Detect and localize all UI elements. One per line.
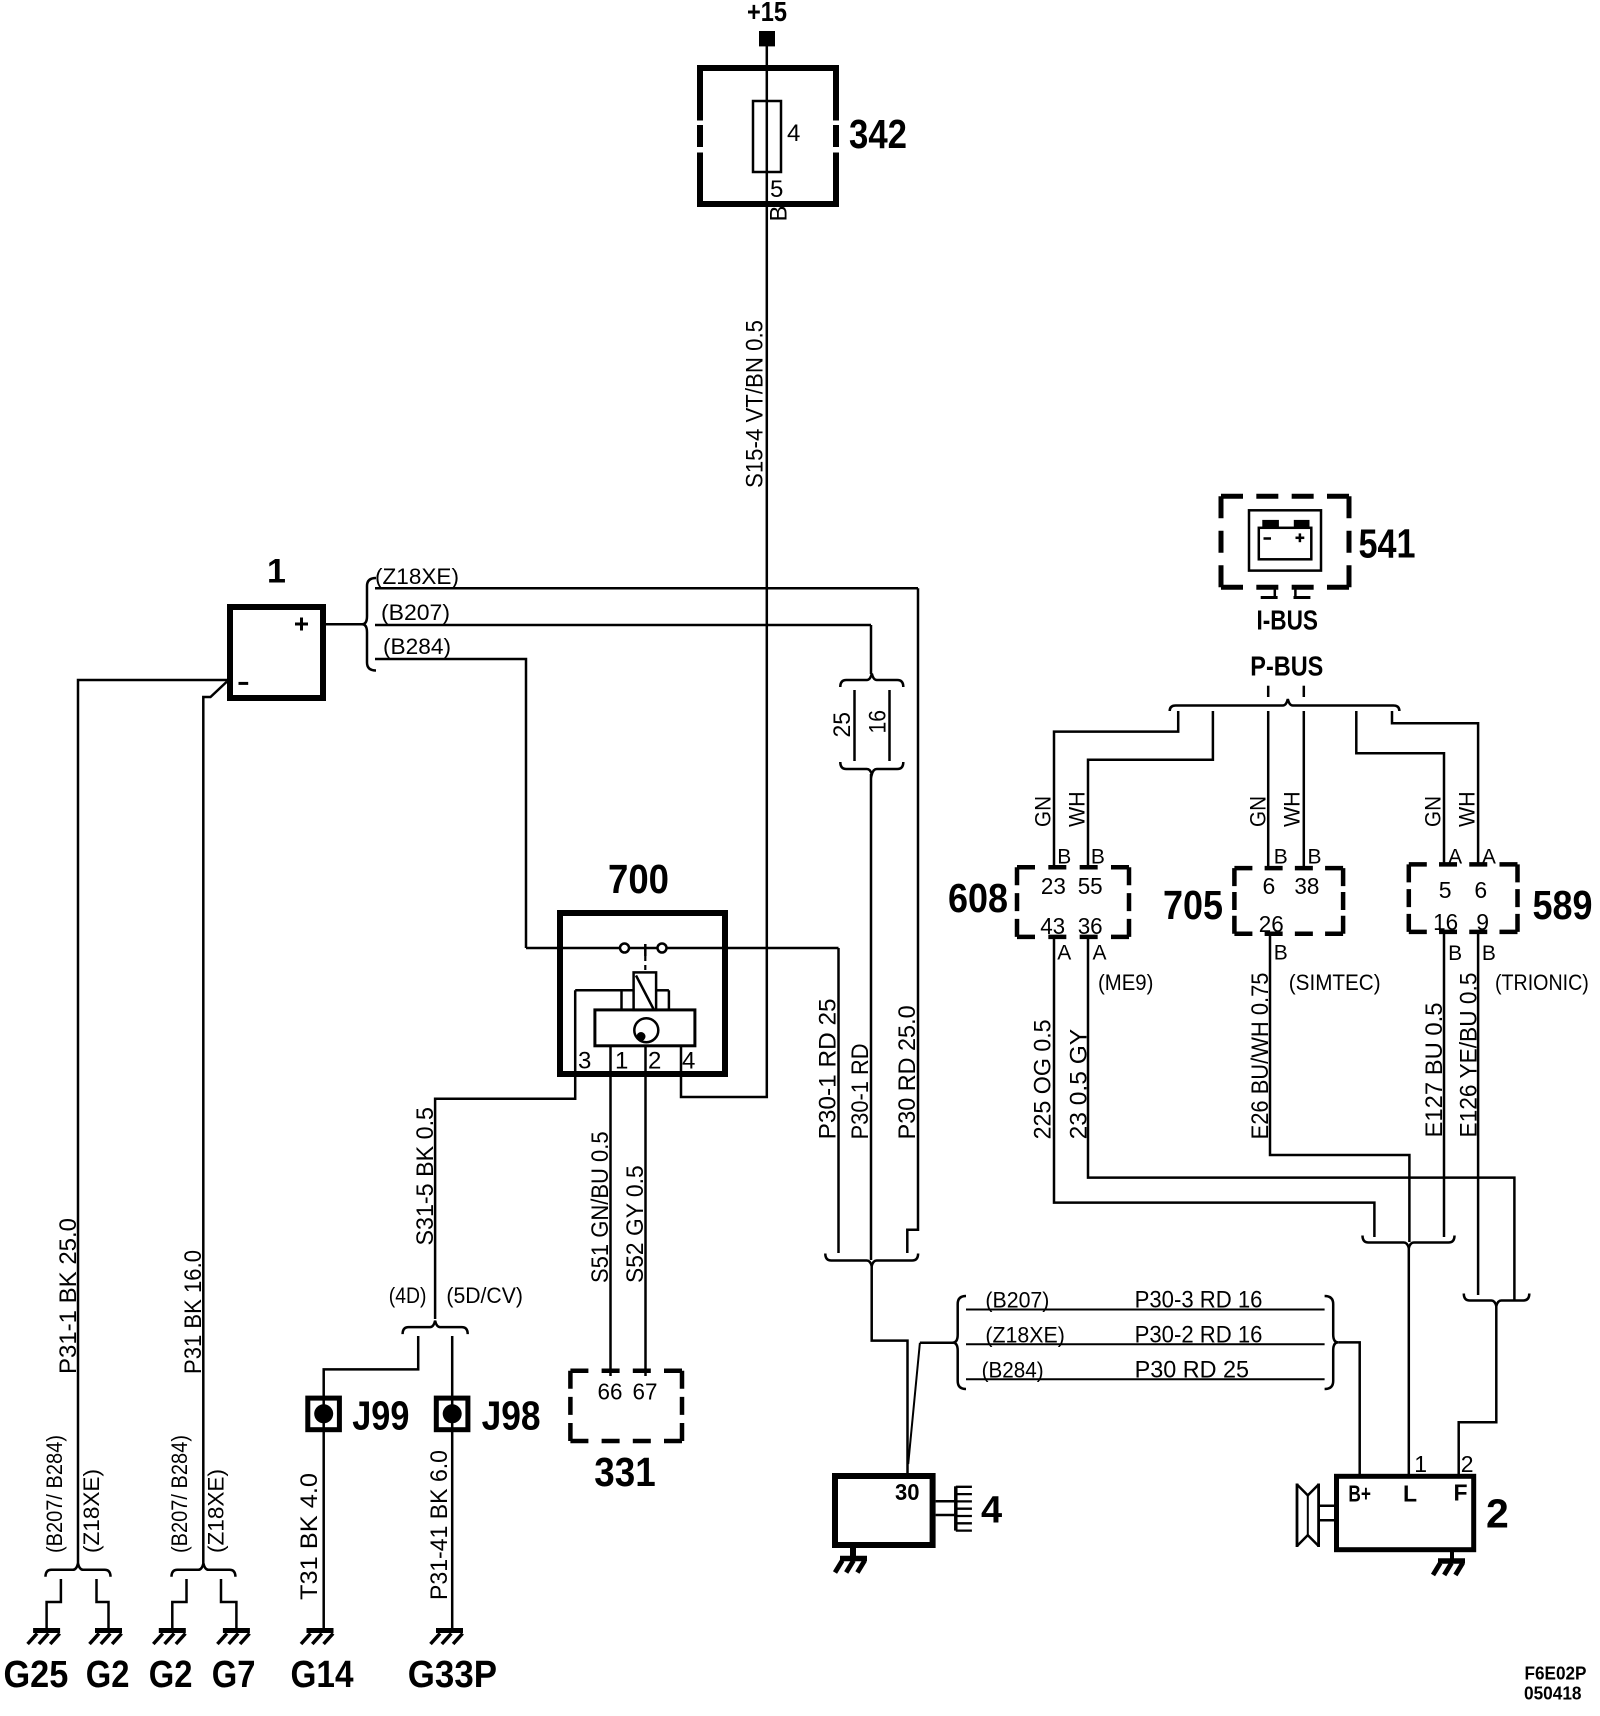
wire branch to ground G7 (221, 1579, 236, 1630)
relay thermal circle symbol (634, 1018, 658, 1042)
svg-text:P30-2 RD 16: P30-2 RD 16 (1135, 1321, 1263, 1348)
wire 705 pin 26 to L merge brace (1270, 934, 1409, 1242)
svg-text:G33P: G33P (408, 1654, 497, 1696)
svg-text:66: 66 (598, 1379, 623, 1405)
svg-text:9: 9 (1476, 909, 1489, 935)
bus wire to 705 pin 38 (1303, 711, 1306, 866)
svg-text:P30-3 RD 16: P30-3 RD 16 (1135, 1287, 1263, 1314)
pin 23 label (1041, 873, 1066, 899)
svg-text:705: 705 (1163, 882, 1223, 928)
svg-text:E26 BU/WH 0.75: E26 BU/WH 0.75 (1247, 973, 1274, 1140)
wire 608 pin 43 to L merge brace (1054, 937, 1374, 1237)
svg-text:(5D/CV): (5D/CV) (446, 1283, 523, 1308)
svg-text:050418: 050418 (1524, 1683, 1582, 1704)
wire label S31-5 BK 0.5 (412, 1107, 439, 1246)
svg-text:(B284): (B284) (383, 634, 451, 659)
svg-text:23: 23 (1041, 873, 1066, 899)
wire (Z18XE) horizontal from brace to right side (375, 587, 918, 590)
component label 1 (battery) (267, 553, 286, 591)
svg-text:(4D): (4D) (389, 1283, 427, 1308)
ground label G25 (4, 1654, 69, 1696)
wire label WH (589) (1455, 791, 1480, 827)
wire P30-1 RD 25 (from relay contact down) (837, 948, 840, 1253)
svg-text:B: B (1057, 845, 1071, 868)
component label 2 (generator) (1486, 1490, 1509, 1536)
svg-text:P30-1 RD 25: P30-1 RD 25 (815, 998, 842, 1139)
svg-text:4: 4 (787, 120, 800, 147)
generator chassis ground symbol (1433, 1561, 1465, 1575)
pin 67 label (633, 1379, 658, 1405)
541 bus stub left (1261, 587, 1278, 597)
svg-text:589: 589 (1533, 882, 1593, 928)
svg-text:1: 1 (615, 1048, 628, 1075)
wire label P31-41 BK 6.0 (426, 1450, 453, 1600)
pin 55 label (1078, 873, 1103, 899)
svg-text:GN: GN (1031, 796, 1056, 827)
wire label E127 BU 0.5 (1421, 1003, 1448, 1138)
merge brace for generator F wire (1464, 1294, 1530, 1307)
svg-text:(B284): (B284) (982, 1357, 1044, 1382)
relay box 700 (560, 913, 725, 1074)
ground symbol G2 (first) (90, 1631, 123, 1645)
wire (B284) horizontal then down to relay contact (375, 659, 526, 948)
relay pin 4 label (682, 1048, 695, 1075)
svg-text:T31 BK 4.0: T31 BK 4.0 (296, 1473, 323, 1600)
pin 5 label of fuse (770, 176, 783, 203)
label (B207) list (985, 1288, 1049, 1313)
label (4D) (389, 1283, 427, 1308)
svg-text:(B207): (B207) (985, 1288, 1049, 1313)
svg-text:I-BUS: I-BUS (1257, 604, 1319, 635)
svg-text:S31-5 BK 0.5: S31-5 BK 0.5 (412, 1107, 439, 1246)
svg-text:6: 6 (1474, 877, 1487, 903)
bus wire to 589 pin 6 (1392, 711, 1478, 864)
wire label GN (589) (1421, 796, 1446, 827)
wire label 23 0.5 GY (1065, 1029, 1092, 1140)
svg-text:5: 5 (1439, 877, 1452, 903)
P-BUS distribution brace (1170, 699, 1400, 711)
connector box 331 (dashed) (570, 1371, 682, 1441)
svg-text:WH: WH (1280, 791, 1305, 827)
pin 38 label (1294, 873, 1319, 899)
component label 705 (1163, 882, 1223, 928)
svg-text:36: 36 (1078, 913, 1103, 939)
pin 5 label (589) (1439, 877, 1452, 903)
starter chassis ground symbol (835, 1559, 867, 1573)
gauge bracket upper brace (840, 674, 903, 688)
relay contact armature tick (644, 944, 647, 956)
label (ME9) (1098, 970, 1153, 995)
label P30-2 RD 16 (1135, 1321, 1263, 1348)
bus wire to 705 pin 6 (1267, 711, 1270, 866)
pin 66 label (598, 1379, 623, 1405)
svg-text:B: B (766, 205, 793, 221)
wire label P31 BK 16.0 (180, 1250, 207, 1374)
battery 1 plus sign (295, 618, 308, 631)
svg-text:4: 4 (981, 1490, 1002, 1532)
pin 6 label (589) (1474, 877, 1487, 903)
svg-text:P30 RD 25: P30 RD 25 (1135, 1356, 1249, 1383)
svg-text:P31-1 BK 25.0: P31-1 BK 25.0 (55, 1218, 82, 1374)
wire through fuse 342 (766, 68, 769, 948)
svg-text:P30 RD 25.0: P30 RD 25.0 (894, 1005, 921, 1139)
svg-text:1: 1 (1414, 1451, 1427, 1477)
bus wire to 608 pin 23 (1054, 711, 1178, 866)
relay pin 1 label (615, 1048, 628, 1075)
svg-text:608: 608 (948, 875, 1008, 921)
relay armature dashed link (644, 956, 646, 972)
relay pin 2 label (648, 1048, 661, 1075)
relay pin 3 label (578, 1048, 591, 1075)
svg-text:S51 GN/BU 0.5: S51 GN/BU 0.5 (587, 1131, 614, 1283)
svg-text:26: 26 (1259, 911, 1284, 937)
wire P30-1 RD below gauge bracket (870, 774, 873, 1260)
svg-text:700: 700 (608, 856, 669, 902)
wire battery plus to variant brace (323, 623, 363, 626)
svg-text:G7: G7 (212, 1654, 256, 1696)
svg-text:G2: G2 (86, 1654, 130, 1696)
label (TRIONIC) (1495, 970, 1589, 995)
wire label E126 YE/BU 0.5 (1455, 973, 1482, 1138)
ground label G2 (second) (149, 1654, 193, 1696)
svg-text:P-BUS: P-BUS (1250, 650, 1323, 681)
relay coil yoke lines (575, 990, 669, 1010)
svg-text:WH: WH (1065, 791, 1090, 827)
svg-text:GN: GN (1246, 796, 1271, 827)
svg-text:B: B (1274, 942, 1288, 965)
connector box 608 (dashed) (1017, 867, 1129, 937)
wire label GN (705) (1246, 796, 1271, 827)
svg-text:G2: G2 (149, 1654, 193, 1696)
svg-text:331: 331 (594, 1449, 655, 1495)
wire branch (4D) to junction J99 (324, 1336, 419, 1630)
wire label S51 GN/BU 0.5 (587, 1131, 614, 1283)
svg-text:GN: GN (1421, 796, 1446, 827)
wire merged to generator L (1408, 1247, 1411, 1476)
svg-text:B: B (1482, 942, 1496, 965)
node +15 supply label (747, 0, 787, 27)
svg-text:(B207/ B284): (B207/ B284) (167, 1435, 192, 1553)
svg-text:4: 4 (682, 1048, 695, 1075)
junction label J99 (352, 1392, 409, 1438)
wire label P30-1 RD 25 (815, 998, 842, 1139)
svg-text:F: F (1454, 1480, 1468, 1506)
wire label WH (608) (1065, 791, 1090, 827)
junction J98 box with dot (436, 1398, 468, 1430)
svg-text:P31-41 BK 6.0: P31-41 BK 6.0 (426, 1450, 453, 1600)
battery icon in 541 (1259, 520, 1312, 559)
wire label P31-1 BK 25.0 (55, 1218, 82, 1374)
svg-text:B: B (1448, 942, 1462, 965)
svg-text:B: B (1274, 845, 1288, 868)
svg-text:1: 1 (267, 553, 286, 591)
pin letter B below 705 pin 26 (1274, 942, 1288, 965)
label (B284) engine variant (383, 634, 451, 659)
label (SIMTEC) (1289, 970, 1381, 995)
pin letter B above 705 pin 6 (1274, 845, 1288, 868)
svg-text:2: 2 (1461, 1451, 1474, 1477)
pin 30 label (895, 1479, 920, 1505)
label (Z18XE) list (985, 1322, 1065, 1347)
pin 4 label of fuse (787, 120, 800, 147)
svg-text:(ME9): (ME9) (1098, 970, 1153, 995)
module 541 dashed box (1221, 496, 1349, 587)
wire label T31 BK 4.0 (296, 1473, 323, 1600)
generator pin 2 label (1461, 1451, 1474, 1477)
component label 700 (608, 856, 669, 902)
svg-text:S15-4 VT/BN 0.5: S15-4 VT/BN 0.5 (742, 320, 769, 488)
wire label S15-4 VT/BN 0.5 (742, 320, 769, 488)
bus wire to 608 pin 55 (1088, 711, 1213, 866)
module 541 inner box (1249, 510, 1321, 570)
svg-text:16: 16 (1433, 909, 1458, 935)
label (B207/ B284) variant for ground G2 second (167, 1435, 192, 1553)
wire stub to P30 list brace with diagonal (908, 1343, 953, 1464)
junction J99 box with dot (308, 1398, 340, 1430)
pin letter A below 608 pin 36 (1093, 942, 1107, 965)
gauge bracket line 25 (853, 690, 856, 761)
gauge bracket line 16 (888, 690, 891, 761)
pin letter B above 608 pin 55 (1091, 845, 1105, 868)
generator pulley symbol (1297, 1484, 1319, 1548)
wire (Z18XE) down right side (907, 588, 918, 1253)
wire merged to generator F (1459, 1305, 1497, 1476)
ground label G2 (first) (86, 1654, 130, 1696)
svg-text:38: 38 (1294, 873, 1319, 899)
pin 16 label (1433, 909, 1458, 935)
ground label G14 (291, 1654, 354, 1696)
label P30-3 RD 16 (1135, 1287, 1263, 1314)
diagram code F6E02P (1525, 1663, 1587, 1684)
svg-text:(B207): (B207) (381, 600, 450, 625)
wire battery minus to left grounds (78, 680, 228, 1563)
ground symbol G2 (second) (153, 1631, 186, 1645)
wire merged P30 down to starter (872, 1265, 908, 1476)
generator pin B+ label (1348, 1481, 1371, 1507)
svg-text:J99: J99 (352, 1392, 409, 1438)
svg-text:(B207/ B284): (B207/ B284) (42, 1435, 67, 1553)
label (B207) engine variant (381, 600, 450, 625)
svg-text:5: 5 (770, 176, 783, 203)
label (B284) list (982, 1357, 1044, 1382)
wire branch to ground G2 (second) (172, 1579, 186, 1630)
svg-text:2: 2 (1486, 1490, 1509, 1536)
pin B label (rotated) below fuse box (766, 205, 793, 221)
gauge label 16 (865, 710, 892, 734)
wire relay pin 2 down to 331 (644, 1046, 647, 1376)
pin 26 label (1259, 911, 1284, 937)
ground label G33P (408, 1654, 497, 1696)
generator ground stub (1450, 1550, 1454, 1561)
svg-text:3: 3 (578, 1048, 591, 1075)
list line 3 (B284) P30 RD 25 (966, 1378, 1325, 1380)
component label 331 (594, 1449, 655, 1495)
svg-text:E126 YE/BU 0.5: E126 YE/BU 0.5 (1455, 973, 1482, 1138)
ground symbol G33P (431, 1631, 464, 1645)
svg-text:E127 BU 0.5: E127 BU 0.5 (1421, 1003, 1448, 1138)
svg-text:P30-1 RD: P30-1 RD (847, 1043, 874, 1139)
pin 6 label (705) (1263, 873, 1276, 899)
wire label E26 BU/WH 0.75 (1247, 973, 1274, 1140)
fuse box 342 outline (dashed component box) (697, 65, 839, 207)
generator pin F label (1454, 1480, 1468, 1506)
svg-text:S52 GY 0.5: S52 GY 0.5 (622, 1165, 649, 1283)
component label 342 (849, 111, 907, 157)
svg-text:23 0.5 GY: 23 0.5 GY (1065, 1029, 1092, 1140)
wire from list brace to generator B+ (1338, 1342, 1360, 1476)
generator belt link lines (1320, 1506, 1337, 1520)
generator box 2 (1337, 1476, 1474, 1549)
svg-text:G25: G25 (4, 1654, 69, 1696)
svg-text:30: 30 (895, 1479, 920, 1505)
svg-text:25: 25 (829, 712, 856, 738)
pin 9 label (1476, 909, 1489, 935)
wire branch to ground G2 (first) (97, 1579, 109, 1630)
relay coil symbol (634, 972, 657, 1010)
pin letter A above 589 pin 6 (1482, 845, 1496, 868)
svg-text:B: B (1091, 845, 1105, 868)
svg-text:+15: +15 (747, 0, 787, 27)
svg-text:342: 342 (849, 111, 907, 157)
wire branch to ground G25 (47, 1579, 61, 1630)
pin 36 label (1078, 913, 1103, 939)
label (Z18XE) variant for ground G2 (79, 1469, 104, 1553)
svg-text:J98: J98 (482, 1392, 541, 1438)
list brace right } (1325, 1296, 1339, 1389)
label (Z18XE) variant for ground G7 (204, 1469, 229, 1553)
starter pinion rack symbol (956, 1486, 972, 1530)
541 bus stub right (1294, 587, 1311, 597)
wire relay pin 3 down-left to variant brace (435, 990, 575, 1319)
merge brace for generator L wire (1363, 1236, 1455, 1249)
svg-text:(Z18XE): (Z18XE) (204, 1469, 229, 1553)
component label 589 (1533, 882, 1593, 928)
ground symbol G25 (28, 1631, 61, 1645)
list line 2 (Z18XE) P30-2 RD 16 (966, 1343, 1325, 1345)
pin letter B above 705 pin 38 (1308, 845, 1322, 868)
svg-text:541: 541 (1359, 521, 1416, 567)
wire relay pin 1 down to 331 (609, 1046, 612, 1376)
battery 1 box (230, 607, 323, 698)
label (Z18XE) engine variant (375, 564, 459, 589)
variant split brace on wire P31 (172, 1563, 236, 1577)
wire label 225 OG 0.5 (1030, 1019, 1057, 1139)
list brace left { (953, 1296, 966, 1389)
gauge label 25 (829, 712, 856, 738)
pin letter A below 608 pin 43 (1057, 942, 1071, 965)
svg-text:G14: G14 (291, 1654, 354, 1696)
pin 43 label (1040, 913, 1065, 939)
svg-text:(Z18XE): (Z18XE) (79, 1469, 104, 1553)
pin letter B below 589 pin 16 (1448, 942, 1462, 965)
wire 608 pin 36 to F merge brace (1088, 937, 1514, 1300)
wire relay pin 4 to fuse wire (681, 948, 767, 1097)
generator pin L label (1403, 1481, 1417, 1507)
wire label GN (608) (1031, 796, 1056, 827)
relay contact terminal circles (620, 944, 667, 953)
label I-BUS (1257, 604, 1319, 635)
wire battery minus branch diagonal to second ground wire (203, 682, 227, 1564)
starter solenoid box with pin 30 (835, 1476, 933, 1545)
variant split brace at battery plus (362, 578, 376, 671)
wire +15 to fuse box 342 (766, 46, 769, 68)
connector box 705 (dashed) (1234, 868, 1343, 934)
wire label P30-1 RD (847, 1043, 874, 1139)
wire (B207) down to gauge bracket (870, 625, 873, 674)
wire 589 pin 9 to F merge brace (1477, 932, 1480, 1295)
ground symbol G7 (217, 1631, 250, 1645)
label (5D/CV) (446, 1283, 523, 1308)
starter ground stub (850, 1545, 856, 1557)
wire label P30 RD 25.0 (894, 1005, 921, 1139)
starter pinion link lines (936, 1501, 955, 1515)
merge brace of three P30 wires (825, 1254, 918, 1267)
component label 608 (948, 875, 1008, 921)
junction label J98 (482, 1392, 541, 1438)
svg-text:P31 BK 16.0: P31 BK 16.0 (180, 1250, 207, 1374)
svg-text:A: A (1057, 942, 1071, 965)
generator pin 1 label (1414, 1451, 1427, 1477)
wire label S52 GY 0.5 (622, 1165, 649, 1283)
pin letter B above 608 pin 23 (1057, 845, 1071, 868)
wire branch (5D/CV) to junction J98 (451, 1336, 454, 1630)
relay inner body box (595, 1010, 695, 1046)
wire label WH (705) (1280, 791, 1305, 827)
svg-text:225 OG 0.5: 225 OG 0.5 (1030, 1019, 1057, 1139)
ground symbol G14 (301, 1631, 334, 1645)
variant split brace (4D)/(5D/CV) (403, 1321, 468, 1335)
svg-text:(SIMTEC): (SIMTEC) (1289, 970, 1381, 995)
list line 1 (B207) P30-3 RD 16 (966, 1309, 1325, 1311)
svg-text:43: 43 (1040, 913, 1065, 939)
svg-text:67: 67 (633, 1379, 658, 1405)
svg-text:(Z18XE): (Z18XE) (375, 564, 459, 589)
fuse element F4 rectangle (753, 101, 781, 172)
component label 541 (1359, 521, 1416, 567)
svg-text:(Z18XE): (Z18XE) (985, 1322, 1065, 1347)
svg-text:L: L (1403, 1481, 1417, 1507)
svg-text:B+: B+ (1348, 1481, 1371, 1507)
svg-text:2: 2 (648, 1048, 661, 1075)
diagram date 050418 (1524, 1683, 1582, 1704)
bus wire to 589 pin 5 (1356, 711, 1444, 864)
label P-BUS (1250, 650, 1323, 681)
svg-text:16: 16 (865, 710, 892, 734)
svg-text:WH: WH (1455, 791, 1480, 827)
component label 4 (starter) (981, 1490, 1002, 1532)
battery 1 minus sign (239, 682, 249, 685)
svg-text:F6E02P: F6E02P (1525, 1663, 1587, 1684)
svg-text:B: B (1308, 845, 1322, 868)
svg-text:55: 55 (1078, 873, 1103, 899)
svg-text:6: 6 (1263, 873, 1276, 899)
pin letter B below 589 pin 9 (1482, 942, 1496, 965)
label (B207/ B284) variant for ground G25 (42, 1435, 67, 1553)
gauge bracket lower brace (840, 762, 903, 775)
svg-text:A: A (1093, 942, 1107, 965)
P-BUS dashed continuation stubs (1268, 686, 1304, 697)
variant split brace on wire P31-1 (46, 1563, 111, 1577)
wire (B207) horizontal (375, 624, 871, 627)
connector box 589 (dashed) (1409, 864, 1518, 932)
wire relay contact feed horizontal (526, 947, 839, 950)
ground label G7 (212, 1654, 256, 1696)
node +15 terminal square (759, 31, 775, 46)
wire 589 pin 16 to L merge brace (1443, 932, 1446, 1237)
pin letter A above 589 pin 5 (1448, 845, 1462, 868)
svg-text:(TRIONIC): (TRIONIC) (1495, 970, 1589, 995)
label P30 RD 25 (1135, 1356, 1249, 1383)
